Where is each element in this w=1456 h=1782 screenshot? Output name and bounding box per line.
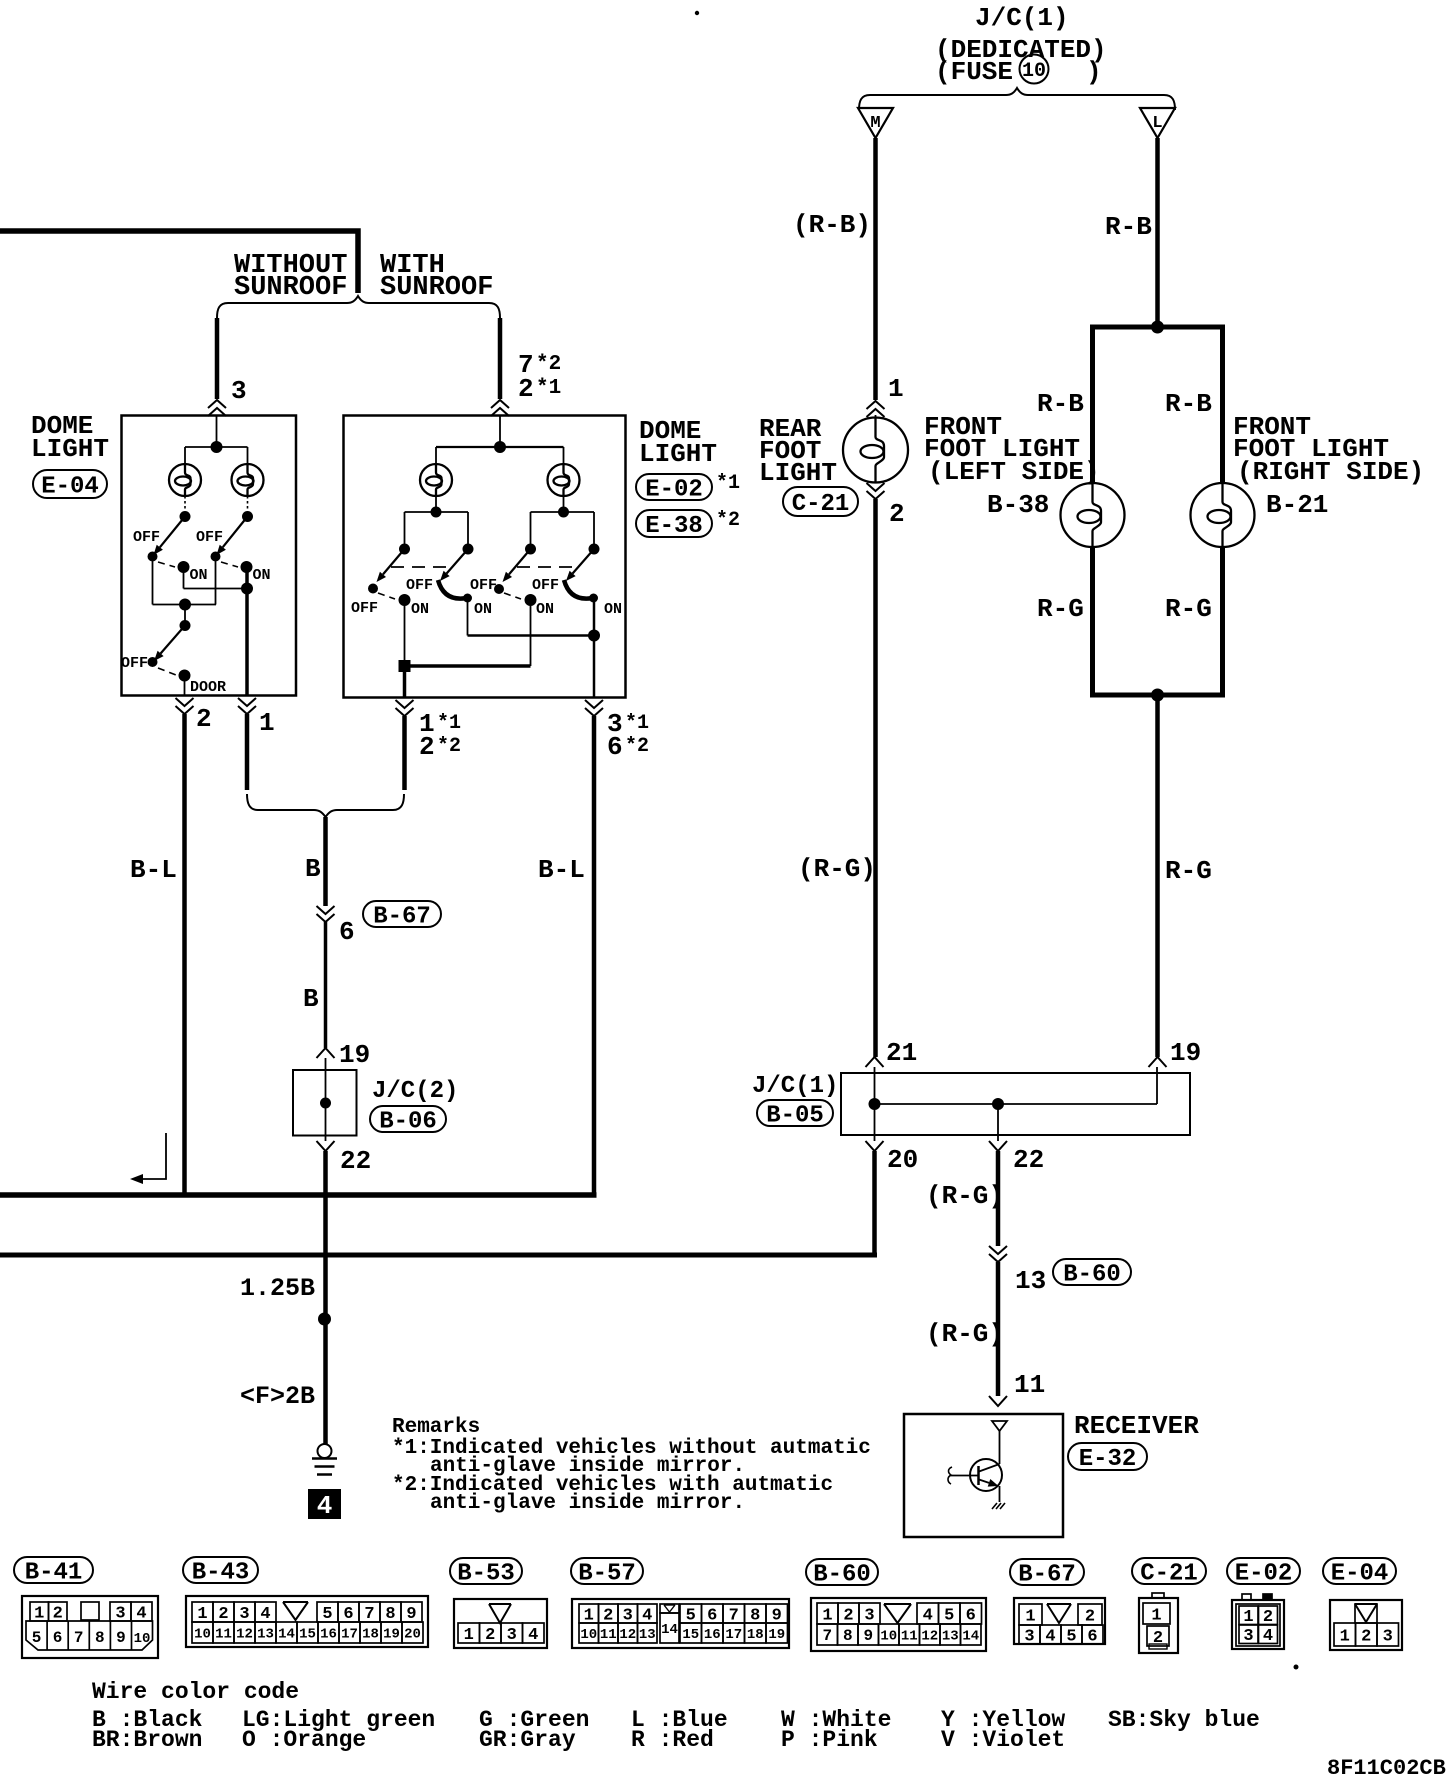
wire to dome light E-04 bbox=[215, 318, 220, 399]
svg-text:7: 7 bbox=[74, 1629, 84, 1647]
svg-text:ON: ON bbox=[536, 601, 554, 618]
ON3 drop wire bbox=[530, 600, 532, 666]
thick throw arc blade 2 to ON bbox=[438, 580, 467, 599]
svg-text:*2: *2 bbox=[536, 353, 561, 376]
svg-text:M: M bbox=[870, 114, 880, 133]
entry lead 19 bbox=[1156, 1067, 1158, 1104]
svg-text:B-67: B-67 bbox=[373, 903, 431, 930]
svg-text:7: 7 bbox=[822, 1627, 832, 1645]
svg-text:B-L: B-L bbox=[130, 855, 177, 885]
left bulb bbox=[420, 464, 452, 496]
svg-text:3: 3 bbox=[239, 1605, 249, 1624]
contact dot blade 1 bbox=[368, 584, 378, 594]
wire 22 lower segment bbox=[996, 1262, 1001, 1396]
ON dot blade 1 bbox=[399, 594, 411, 606]
svg-text:): ) bbox=[1086, 57, 1102, 87]
connector B-53 drawing bbox=[454, 1599, 547, 1648]
junction dot to door switch bbox=[179, 599, 191, 611]
pin 19 arrow into J/C(2) bbox=[317, 1048, 335, 1058]
svg-text:B-67: B-67 bbox=[1018, 1561, 1076, 1588]
svg-text:(R-G): (R-G) bbox=[926, 1181, 1004, 1211]
thick throw arc blade 4 to ON bbox=[564, 580, 593, 599]
svg-text:13: 13 bbox=[942, 1628, 959, 1644]
wire B-L left bbox=[182, 714, 187, 1195]
svg-text:*2: *2 bbox=[625, 735, 649, 758]
merge brace joining dome outputs bbox=[247, 794, 404, 817]
svg-text:C-21: C-21 bbox=[1140, 1560, 1198, 1587]
svg-text:*1: *1 bbox=[625, 712, 649, 735]
svg-text:2: 2 bbox=[843, 1606, 853, 1625]
mechanical coupling dashes pair 2 bbox=[517, 566, 574, 568]
svg-text:1: 1 bbox=[197, 1605, 207, 1624]
svg-text:E-38: E-38 bbox=[645, 513, 703, 540]
door switch blade bbox=[161, 626, 185, 654]
junction dot right T-bar bbox=[558, 507, 569, 518]
ON2 drop wire bbox=[467, 600, 469, 636]
svg-text:11: 11 bbox=[215, 1626, 232, 1642]
left switch blade bbox=[160, 517, 185, 548]
svg-text:O :Orange: O :Orange bbox=[242, 1727, 366, 1753]
svg-text:16: 16 bbox=[704, 1627, 721, 1643]
stray mark bbox=[1294, 1665, 1299, 1670]
svg-text:B-21: B-21 bbox=[1266, 490, 1328, 520]
svg-text:11: 11 bbox=[901, 1628, 918, 1644]
svg-text:2: 2 bbox=[419, 732, 435, 762]
svg-text:2: 2 bbox=[196, 704, 212, 734]
lamp bus bbox=[436, 446, 564, 448]
wire 22 upper segment bbox=[996, 1151, 1001, 1246]
dome light E-04 box bbox=[122, 416, 297, 696]
square junction dot bbox=[399, 660, 411, 672]
svg-text:*1: *1 bbox=[536, 377, 561, 400]
pin 3*1/6*2 chevron (E-02/E-38) bbox=[585, 700, 603, 708]
junction dot top of loop bbox=[1151, 321, 1164, 334]
svg-text:3: 3 bbox=[231, 376, 247, 406]
switch pivot 2 bbox=[463, 544, 474, 555]
switch blade 1 bbox=[383, 549, 405, 574]
svg-text:16: 16 bbox=[320, 1626, 337, 1642]
door switch pivot bbox=[180, 620, 191, 631]
lead to transistor bbox=[999, 1431, 1001, 1464]
svg-text:9: 9 bbox=[406, 1605, 416, 1624]
junction dot bottom of loop bbox=[1151, 689, 1164, 702]
feed wire from page left bbox=[0, 231, 358, 293]
svg-text:4: 4 bbox=[1045, 1627, 1055, 1646]
receiver box bbox=[904, 1414, 1063, 1537]
right switch blade bbox=[223, 517, 248, 548]
connector E-02 drawing bbox=[1232, 1600, 1284, 1649]
svg-text:15: 15 bbox=[299, 1626, 316, 1642]
junction dot on output wire bbox=[241, 583, 253, 595]
svg-text:<F>2B: <F>2B bbox=[240, 1382, 315, 1411]
wire M vertical bbox=[873, 138, 878, 400]
svg-text:C-21: C-21 bbox=[792, 491, 850, 518]
svg-text:4: 4 bbox=[1263, 1627, 1273, 1646]
svg-text:OFF: OFF bbox=[121, 655, 148, 672]
junction dot inside J/C(2) bbox=[320, 1098, 331, 1109]
svg-text:6: 6 bbox=[53, 1629, 63, 1647]
svg-text:R :Red: R :Red bbox=[631, 1727, 714, 1753]
connector pill (C-21) bbox=[1132, 1558, 1206, 1584]
svg-text:21: 21 bbox=[886, 1038, 917, 1068]
right switch contact dot bbox=[211, 552, 221, 562]
svg-text:*1: *1 bbox=[716, 472, 740, 495]
svg-text:anti-glave inside mirror.: anti-glave inside mirror. bbox=[430, 1492, 745, 1515]
connector B-43 drawing bbox=[186, 1596, 428, 1647]
svg-text:R-B: R-B bbox=[1105, 212, 1152, 242]
feed lead inside box bbox=[216, 416, 218, 448]
left T-bar bbox=[405, 511, 469, 513]
dashed throw to ON bbox=[158, 562, 175, 567]
svg-text:3: 3 bbox=[1243, 1627, 1253, 1646]
svg-text:8: 8 bbox=[843, 1627, 853, 1645]
connector pill (B-43) bbox=[183, 1557, 258, 1583]
entry lead bbox=[325, 1058, 327, 1103]
svg-text:*2: *2 bbox=[716, 509, 740, 532]
svg-text:10: 10 bbox=[134, 1631, 151, 1647]
right bulb bbox=[548, 464, 580, 496]
connector pill (E-04) bbox=[1323, 1558, 1396, 1584]
svg-text:2: 2 bbox=[1361, 1627, 1371, 1646]
pin 22 exit arrow bbox=[997, 1104, 999, 1141]
svg-text:OFF: OFF bbox=[133, 529, 160, 546]
brace over fuse feed bbox=[859, 88, 1175, 110]
svg-text:17: 17 bbox=[341, 1626, 358, 1642]
wire 1*1 to merge brace bbox=[402, 716, 407, 790]
ON join wire bbox=[184, 588, 248, 590]
dashed throw to DOOR bbox=[158, 668, 176, 675]
connector pill (B-67) bbox=[1010, 1559, 1084, 1585]
svg-text:13: 13 bbox=[257, 1626, 274, 1642]
connector pill (B-06) bbox=[370, 1106, 446, 1132]
pin 2 chevron below rear foot light bbox=[867, 483, 885, 491]
svg-text:11: 11 bbox=[1014, 1370, 1045, 1400]
svg-text:2: 2 bbox=[518, 374, 534, 404]
svg-text:14: 14 bbox=[661, 1622, 678, 1638]
svg-text:1: 1 bbox=[1340, 1627, 1350, 1646]
svg-text:10: 10 bbox=[880, 1628, 897, 1644]
ON dot blade 3 bbox=[525, 594, 537, 606]
connector pill (E-02) *1 bbox=[636, 474, 712, 500]
svg-text:22: 22 bbox=[340, 1146, 371, 1176]
svg-text:10: 10 bbox=[194, 1626, 211, 1642]
left contact drop wire bbox=[152, 557, 154, 605]
svg-text:ON: ON bbox=[474, 601, 492, 618]
svg-text:B-57: B-57 bbox=[578, 1560, 636, 1587]
svg-text:J/C(1): J/C(1) bbox=[752, 1073, 838, 1100]
ON join wire thick bbox=[405, 664, 531, 668]
svg-text:4: 4 bbox=[923, 1606, 933, 1625]
svg-text:4: 4 bbox=[317, 1491, 333, 1521]
left bulb drop bbox=[184, 447, 186, 464]
svg-text:1: 1 bbox=[822, 1606, 832, 1625]
right T-bar bbox=[531, 511, 595, 513]
dashed throw blade3 bbox=[504, 593, 521, 599]
feed lead inside box bbox=[499, 416, 501, 448]
transistor (receiver output) bbox=[970, 1459, 1002, 1491]
svg-text:(RIGHT SIDE): (RIGHT SIDE) bbox=[1237, 457, 1424, 487]
svg-text:B-06: B-06 bbox=[379, 1108, 437, 1135]
left bulb stem bbox=[184, 496, 186, 511]
bus junction dot 22 bbox=[992, 1098, 1004, 1110]
left switch contact dot bbox=[148, 552, 158, 562]
connector triangle M (fuse feed) bbox=[858, 108, 893, 138]
left switch pivot bbox=[180, 511, 191, 522]
pin 3 chevron into dome light E-04 bbox=[208, 400, 226, 408]
svg-text:B-05: B-05 bbox=[766, 1102, 824, 1129]
contact dot blade 3 bbox=[494, 584, 504, 594]
junction dot ON4 output bbox=[588, 630, 600, 642]
svg-text:6: 6 bbox=[1087, 1627, 1097, 1646]
svg-text:SB:Sky blue: SB:Sky blue bbox=[1108, 1707, 1260, 1733]
switch blade 2 bbox=[447, 549, 468, 573]
svg-text:(R-G): (R-G) bbox=[926, 1319, 1004, 1349]
internal pin triangle bbox=[992, 1421, 1007, 1431]
ON contact dot bbox=[178, 561, 190, 573]
left ON drop wire bbox=[183, 567, 185, 589]
right bulb bbox=[232, 464, 264, 496]
svg-text:2: 2 bbox=[889, 499, 905, 529]
connector pill (E-32) bbox=[1068, 1443, 1147, 1470]
ON1 drop wire bbox=[404, 600, 406, 666]
svg-text:L: L bbox=[1152, 114, 1162, 133]
switch pivot 3 bbox=[525, 544, 536, 555]
svg-text:B: B bbox=[303, 984, 319, 1014]
ground wire 1.25B bbox=[323, 1151, 328, 1444]
svg-text:J/C(1): J/C(1) bbox=[975, 3, 1069, 33]
switch blade 4 bbox=[573, 549, 594, 573]
svg-text:6: 6 bbox=[966, 1606, 976, 1625]
svg-text:ON: ON bbox=[604, 601, 622, 618]
svg-text:5: 5 bbox=[322, 1605, 332, 1624]
pin 21 arrow into J/C(1) bbox=[866, 1057, 884, 1067]
svg-text:10: 10 bbox=[1022, 60, 1046, 83]
output wire 1 inside box bbox=[403, 666, 407, 698]
svg-text:20: 20 bbox=[404, 1626, 421, 1642]
right bulb stem bbox=[563, 496, 565, 512]
svg-text:3: 3 bbox=[1024, 1627, 1034, 1646]
pin 11 arrow into receiver bbox=[989, 1396, 1007, 1406]
wire to dome light with sunroof bbox=[498, 318, 503, 399]
svg-text:2: 2 bbox=[485, 1626, 495, 1645]
svg-text:3: 3 bbox=[864, 1606, 874, 1625]
svg-text:Remarks: Remarks bbox=[392, 1416, 480, 1439]
internal ground hatch bbox=[992, 1503, 1005, 1509]
inline connector B-60 chevron bbox=[989, 1246, 1007, 1254]
svg-text:R-G: R-G bbox=[1165, 856, 1212, 886]
svg-text:9: 9 bbox=[863, 1627, 873, 1645]
connector pill (B-60) bbox=[806, 1559, 878, 1585]
svg-text:1: 1 bbox=[259, 708, 275, 738]
svg-text:ON: ON bbox=[190, 567, 208, 584]
exit lead bbox=[325, 1103, 327, 1141]
loop box bbox=[1093, 327, 1223, 695]
rear foot light bulb bbox=[843, 418, 908, 483]
svg-text:V :Violet: V :Violet bbox=[941, 1727, 1065, 1753]
pin 22 exit arrow bbox=[317, 1141, 335, 1151]
merged wire B bbox=[323, 817, 328, 906]
svg-text:R-G: R-G bbox=[1165, 594, 1212, 624]
svg-text:J/C(2): J/C(2) bbox=[372, 1078, 458, 1105]
svg-text:R-B: R-B bbox=[1165, 389, 1212, 419]
switch pivot 4 bbox=[589, 544, 600, 555]
svg-text:2: 2 bbox=[218, 1605, 228, 1624]
svg-text:1: 1 bbox=[1151, 1606, 1161, 1625]
svg-text:4: 4 bbox=[528, 1626, 538, 1645]
svg-text:OFF: OFF bbox=[351, 600, 378, 617]
connector pill (B-60) bbox=[1053, 1259, 1131, 1285]
svg-text:ON: ON bbox=[411, 601, 429, 618]
lead into lamp bbox=[875, 415, 877, 418]
svg-text:19: 19 bbox=[339, 1040, 370, 1070]
svg-text:7: 7 bbox=[364, 1605, 374, 1624]
svg-text:19: 19 bbox=[768, 1627, 785, 1643]
svg-text:20: 20 bbox=[887, 1145, 918, 1175]
svg-text:SUNROOF: SUNROOF bbox=[380, 273, 493, 303]
wire 1 to merge brace bbox=[245, 714, 250, 790]
connector C-21 drawing bbox=[1139, 1598, 1178, 1653]
brace splitting to dome light variants bbox=[217, 296, 500, 318]
svg-text:BR:Brown: BR:Brown bbox=[92, 1727, 202, 1753]
left bulb bbox=[169, 464, 201, 496]
svg-text:12: 12 bbox=[619, 1627, 636, 1643]
svg-text:10: 10 bbox=[580, 1627, 597, 1643]
svg-text:(LEFT SIDE): (LEFT SIDE) bbox=[928, 457, 1100, 487]
junction dot feed/bus bbox=[494, 441, 506, 453]
svg-text:12: 12 bbox=[921, 1628, 938, 1644]
svg-text:8: 8 bbox=[385, 1605, 395, 1624]
door switch contact dot bbox=[148, 657, 158, 667]
pin 1*1/2*2 chevron (E-02/E-38) bbox=[396, 700, 414, 708]
svg-text:3: 3 bbox=[507, 1626, 517, 1645]
dashed throw blade1 bbox=[378, 593, 395, 599]
connector B-67 drawing bbox=[1014, 1598, 1105, 1644]
svg-text:DOOR: DOOR bbox=[190, 679, 226, 696]
door switch output lead bbox=[184, 676, 186, 696]
lead to door switch bbox=[184, 605, 186, 626]
left bulb drop bbox=[435, 447, 437, 464]
svg-text:R-B: R-B bbox=[1037, 389, 1084, 419]
svg-text:(R-G): (R-G) bbox=[798, 854, 876, 884]
front foot light left bulb B-38 bbox=[1061, 483, 1125, 547]
svg-text:14: 14 bbox=[962, 1628, 979, 1644]
connector pill (E-38) *2 bbox=[636, 510, 712, 537]
connector B-60 drawing bbox=[811, 1598, 986, 1651]
svg-text:OFF: OFF bbox=[470, 577, 497, 594]
svg-text:LIGHT: LIGHT bbox=[31, 434, 109, 464]
contact join wire bbox=[153, 604, 217, 606]
pin 20 exit arrow bbox=[874, 1104, 876, 1141]
svg-text:OFF: OFF bbox=[532, 577, 559, 594]
svg-text:*1: *1 bbox=[437, 712, 461, 735]
connector pill (B-67) bbox=[363, 901, 441, 927]
entry lead 21 bbox=[874, 1067, 876, 1104]
svg-text:B: B bbox=[305, 854, 321, 884]
switch pivot 1 bbox=[399, 544, 410, 555]
emitter lead to internal ground bbox=[999, 1486, 1001, 1502]
dome light E-02/E-38 box bbox=[344, 416, 626, 698]
svg-text:6: 6 bbox=[339, 917, 355, 947]
svg-text:E-04: E-04 bbox=[1331, 1560, 1389, 1587]
pin 19 arrow into J/C(1) bbox=[1149, 1057, 1167, 1067]
pin chevron into dome light E-02/E-38 bbox=[491, 400, 509, 408]
connector pill (B-41) bbox=[14, 1557, 93, 1583]
connector pill (E-02) bbox=[1227, 1558, 1300, 1584]
DOOR contact dot bbox=[179, 670, 191, 682]
svg-text:GR:Gray: GR:Gray bbox=[479, 1727, 576, 1753]
svg-text:E-02: E-02 bbox=[645, 476, 703, 503]
svg-text:5: 5 bbox=[32, 1629, 42, 1647]
connector pill (C-21) bbox=[783, 487, 858, 516]
svg-text:8: 8 bbox=[95, 1629, 105, 1647]
svg-text:RECEIVER: RECEIVER bbox=[1074, 1411, 1199, 1441]
svg-text:OFF: OFF bbox=[406, 577, 433, 594]
svg-text:1: 1 bbox=[464, 1626, 474, 1645]
svg-text:OFF: OFF bbox=[196, 529, 223, 546]
svg-text:13: 13 bbox=[639, 1627, 656, 1643]
svg-text:1: 1 bbox=[888, 374, 904, 404]
svg-text:B-53: B-53 bbox=[457, 1560, 515, 1587]
connector E-04 drawing bbox=[1330, 1600, 1402, 1650]
front foot light right bulb B-21 bbox=[1191, 483, 1255, 547]
pin 1 chevron into rear foot light bbox=[867, 401, 885, 409]
svg-text:5: 5 bbox=[944, 1606, 954, 1625]
svg-text:1.25B: 1.25B bbox=[240, 1274, 315, 1303]
svg-text:(R-B): (R-B) bbox=[793, 210, 871, 240]
ON2/ON4 join wire bbox=[468, 634, 595, 637]
svg-text:4: 4 bbox=[260, 1605, 270, 1624]
right bulb drop bbox=[563, 447, 565, 464]
internal bus of J/C(1) bbox=[875, 1103, 1158, 1105]
svg-text:B-60: B-60 bbox=[1063, 1261, 1121, 1288]
svg-text:*2: *2 bbox=[437, 735, 461, 758]
svg-text:R-G: R-G bbox=[1037, 594, 1084, 624]
J/C(2) box bbox=[293, 1070, 357, 1136]
svg-text:17: 17 bbox=[725, 1627, 742, 1643]
svg-text:B-60: B-60 bbox=[813, 1561, 871, 1588]
svg-text:14: 14 bbox=[278, 1626, 295, 1642]
circled fuse number 10 bbox=[1020, 55, 1049, 84]
splice dot bbox=[318, 1313, 331, 1326]
connector pill (B-05) bbox=[757, 1100, 833, 1126]
wire B-L right to page left bbox=[592, 716, 597, 1193]
connector triangle L (fuse feed) bbox=[1140, 108, 1175, 138]
svg-text:SUNROOF: SUNROOF bbox=[234, 273, 347, 303]
svg-text:B-38: B-38 bbox=[987, 490, 1049, 520]
connector pill (B-53) bbox=[450, 1558, 522, 1584]
svg-text:ON: ON bbox=[253, 567, 271, 584]
svg-text:18: 18 bbox=[362, 1626, 379, 1642]
svg-text:B-43: B-43 bbox=[192, 1559, 250, 1586]
left bulb stem bbox=[435, 496, 437, 512]
svg-text:22: 22 bbox=[1013, 1145, 1044, 1175]
svg-text:19: 19 bbox=[383, 1626, 400, 1642]
mechanical coupling dashes pair 1 bbox=[391, 566, 448, 568]
svg-text:11: 11 bbox=[600, 1627, 617, 1643]
pin 2 chevron (E-04) bbox=[176, 698, 194, 706]
inline connector B-67 chevron bbox=[317, 906, 335, 914]
svg-text:LIGHT: LIGHT bbox=[759, 458, 837, 488]
J/C(1) box bbox=[841, 1073, 1190, 1135]
wire L vertical bbox=[1155, 138, 1160, 327]
stray mark top bbox=[695, 11, 699, 15]
svg-text:12: 12 bbox=[236, 1626, 253, 1642]
dashed throw to ON bbox=[221, 562, 238, 567]
right bulb drop bbox=[247, 447, 249, 464]
lamp bus bbox=[185, 446, 248, 448]
svg-text:9: 9 bbox=[116, 1629, 126, 1647]
right switch pivot bbox=[242, 511, 253, 522]
